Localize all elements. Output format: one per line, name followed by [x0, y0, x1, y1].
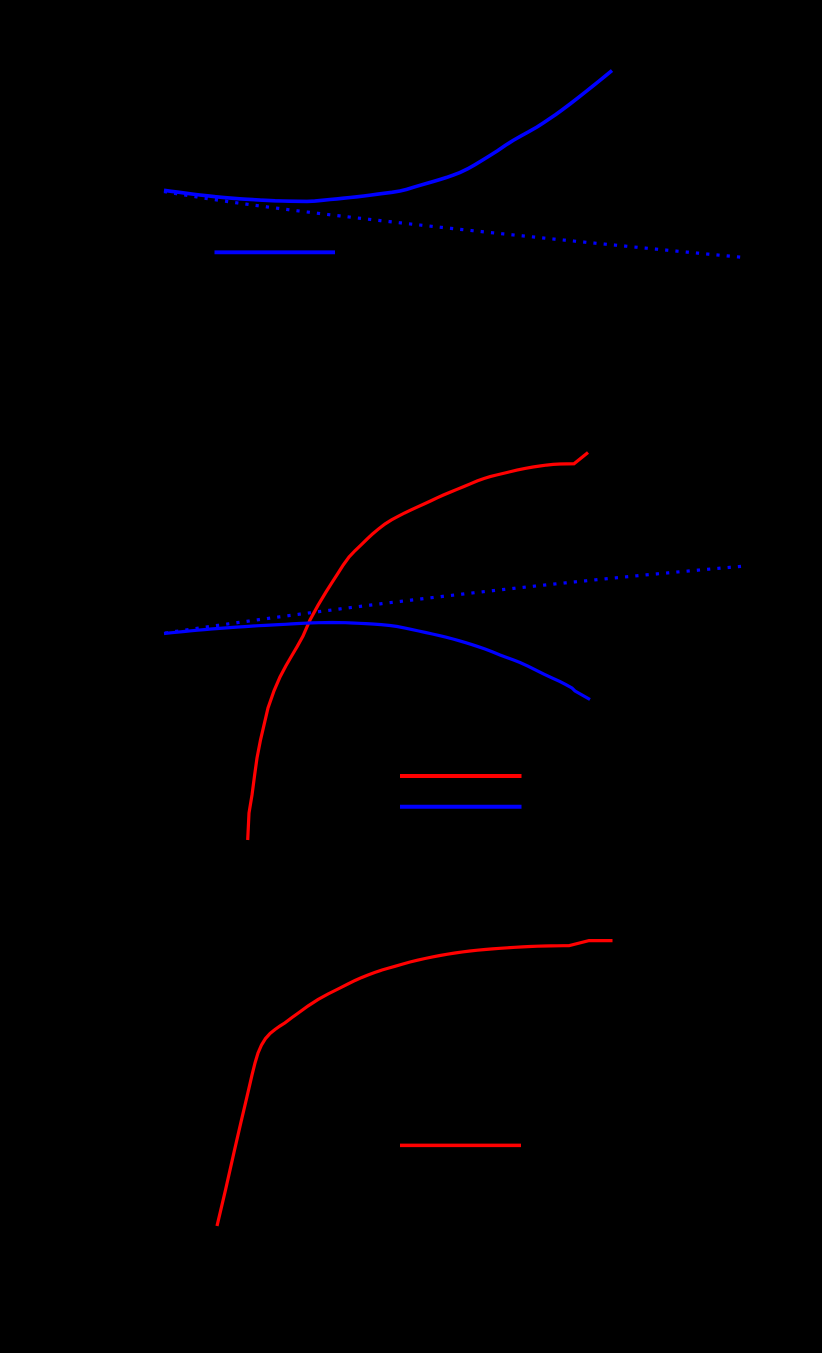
top subplot: legend blue line	[215, 250, 336, 254]
middle subplot: legend blue line	[400, 805, 522, 809]
middle subplot: red curve	[248, 453, 588, 841]
bottom subplot: red curve	[217, 941, 613, 1226]
middle subplot: dotted blue line	[165, 566, 741, 633]
top subplot: dotted blue line	[164, 192, 741, 258]
middle subplot: solid blue curve	[164, 623, 590, 700]
middle subplot: legend red line	[400, 774, 522, 778]
bottom subplot: legend red line	[400, 1144, 521, 1148]
top subplot: solid blue curve	[164, 71, 612, 202]
